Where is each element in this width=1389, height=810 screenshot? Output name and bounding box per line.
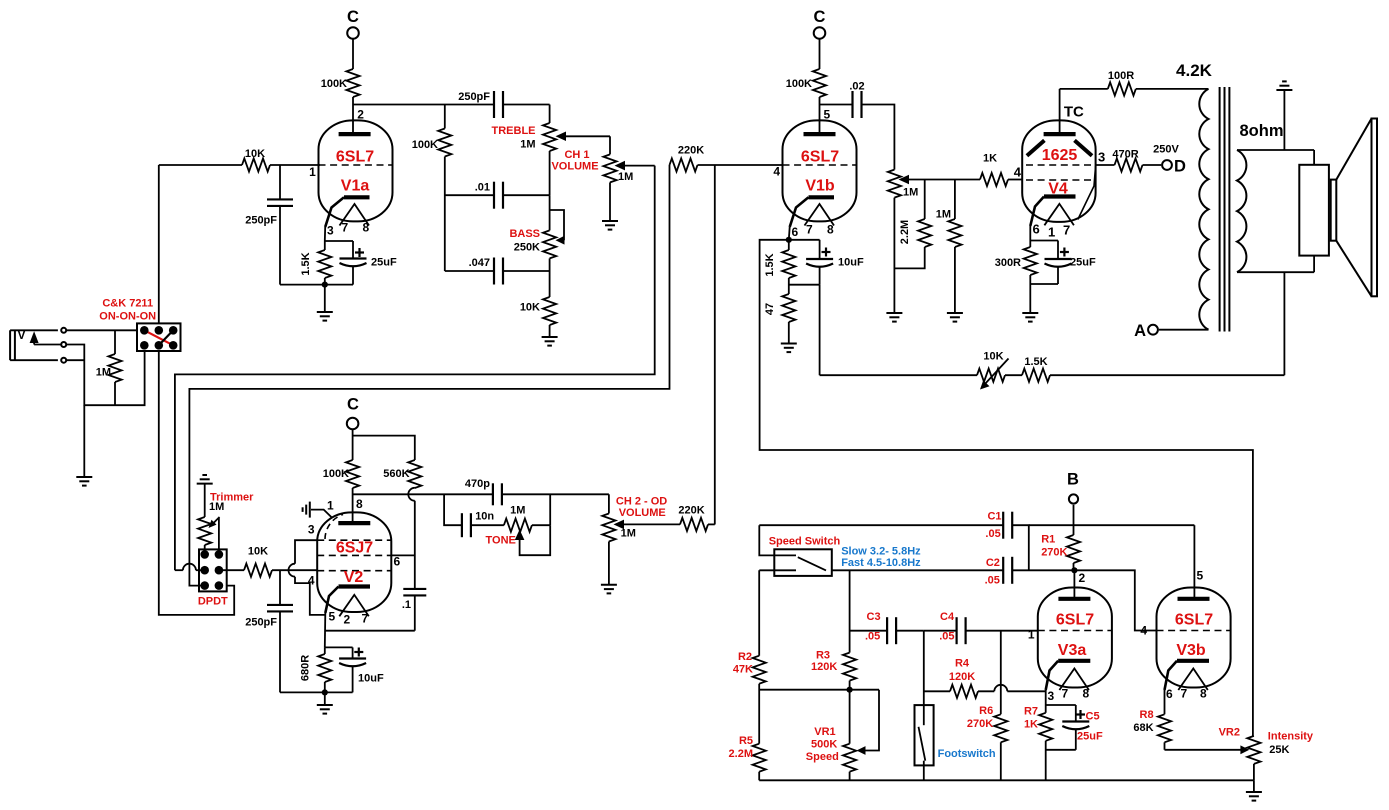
svg-text:10K: 10K: [520, 302, 540, 314]
wire secondary ground stem: [1283, 90, 1285, 150]
svg-text:C3: C3: [867, 611, 881, 623]
svg-text:C2: C2: [986, 557, 1000, 569]
svg-text:BASS: BASS: [509, 228, 540, 240]
resistor 1M grid leak: [954, 180, 956, 220]
svg-text:6SL7: 6SL7: [801, 149, 839, 166]
svg-text:47K: 47K: [733, 664, 753, 676]
svg-text:47: 47: [764, 303, 776, 315]
wire C1 run to V3b plate: [1029, 524, 1195, 526]
VR2 wiper arrow: [1240, 745, 1249, 754]
ground driver pot: [886, 312, 902, 314]
svg-text:1K: 1K: [1024, 719, 1038, 731]
switch speed body: [774, 549, 832, 576]
wire cathode to 680R: [325, 646, 353, 648]
wire R8 to VR2: [1165, 749, 1242, 751]
svg-text:C5: C5: [1086, 711, 1100, 723]
tube V4 heater: [1044, 204, 1074, 226]
wire .02 to driver pot: [862, 105, 895, 170]
wire V4 cathode: [1029, 226, 1031, 247]
svg-text:1: 1: [1028, 628, 1035, 642]
svg-text:100K: 100K: [323, 468, 349, 480]
svg-text:8ohm: 8ohm: [1240, 122, 1284, 140]
svg-text:250pF: 250pF: [245, 215, 277, 227]
tube V3a heater: [1059, 669, 1089, 691]
transformer core: [1219, 87, 1221, 332]
wire V4 plate to 100R: [1060, 88, 1108, 90]
resistor 100K V1a plate load: [346, 69, 359, 97]
svg-text:470R: 470R: [1112, 149, 1138, 161]
footswitch contact: [923, 705, 925, 725]
svg-text:6SL7: 6SL7: [1175, 612, 1213, 629]
wire V2 pin3 to cathode: [295, 540, 317, 564]
trimmer 1M: [198, 517, 211, 545]
svg-text:6: 6: [1033, 222, 1040, 237]
capacitor 250pF V1a input: [279, 165, 281, 199]
tube V4 screen link: [1078, 166, 1096, 220]
svg-text:250V: 250V: [1153, 144, 1179, 156]
svg-text:25uF: 25uF: [1070, 257, 1096, 269]
svg-text:4: 4: [1140, 624, 1147, 638]
switch footswitch body: [915, 705, 934, 765]
switch speed lever: [798, 557, 826, 570]
wire cathode to 10uF: [789, 239, 820, 241]
wire B down: [1073, 505, 1075, 535]
svg-text:270K: 270K: [967, 718, 993, 730]
resistor 100K tone: [444, 105, 446, 129]
svg-text:6SL7: 6SL7: [336, 149, 374, 166]
tube V3a grid dashes: [1038, 630, 1112, 632]
svg-text:220K: 220K: [678, 505, 704, 517]
wire node to V3b grid: [1074, 570, 1157, 630]
wire V1b cathode: [788, 227, 791, 240]
ground V1a cathode: [317, 311, 333, 313]
terminal D: [1162, 160, 1172, 170]
svg-text:5: 5: [329, 609, 336, 623]
node R1 C2: [1071, 567, 1077, 573]
tube V2 dash grid: [317, 570, 391, 572]
trimmer wiper arrow: [209, 520, 217, 528]
wire ch2 mix riser: [714, 165, 716, 525]
rheostat 10K arrow: [984, 359, 1009, 386]
tube V3a cathode: [1058, 659, 1090, 663]
svg-text:1M: 1M: [520, 139, 535, 151]
svg-text:DPDT: DPDT: [198, 596, 228, 608]
svg-text:.1: .1: [402, 599, 411, 611]
wire speed switch to R2 chain: [758, 570, 760, 655]
capacitor 10n tone: [444, 494, 462, 525]
svg-text:10uF: 10uF: [838, 257, 864, 269]
resistor 220K ch2 mix: [680, 518, 708, 531]
svg-text:C1: C1: [987, 511, 1001, 523]
tube V1b envelope: [783, 120, 857, 221]
svg-text:D: D: [1174, 158, 1186, 176]
input jack J1: [9, 330, 11, 360]
resistor R8 68K: [1164, 690, 1166, 714]
svg-text:6: 6: [394, 555, 401, 569]
svg-text:10K: 10K: [983, 351, 1003, 363]
svg-text:TONE: TONE: [486, 535, 516, 547]
resistor R1 270K: [1067, 535, 1080, 563]
svg-text:100K: 100K: [321, 78, 347, 90]
svg-text:.047: .047: [469, 257, 490, 269]
svg-text:1M: 1M: [621, 528, 636, 540]
speaker voice coil: [1331, 180, 1337, 241]
svg-text:Speed: Speed: [806, 751, 839, 763]
svg-text:680R: 680R: [300, 655, 312, 681]
svg-text:1M: 1M: [618, 171, 633, 183]
tube V1b heater: [805, 204, 835, 226]
ground V2 pin1: [309, 502, 311, 518]
svg-text:7: 7: [362, 612, 369, 626]
wire 220K to V1b grid: [698, 164, 783, 166]
resistor R3 120K: [843, 653, 856, 681]
speaker magnet: [1299, 165, 1329, 256]
svg-text:C: C: [814, 8, 826, 26]
svg-text:500K: 500K: [811, 739, 837, 751]
svg-text:2: 2: [344, 612, 351, 626]
tube V1a heater: [340, 204, 370, 226]
wire plate row to tone stack: [353, 104, 494, 106]
tube V4 grid dashes: [1026, 179, 1092, 181]
wire 470p junction down: [549, 494, 551, 525]
svg-text:4: 4: [308, 574, 315, 588]
node V1a cathode junction: [322, 282, 328, 288]
wire V1a cathode: [324, 227, 326, 250]
tube V2 dash suppressor: [317, 539, 391, 541]
svg-text:VOLUME: VOLUME: [619, 507, 666, 519]
tube V2 envelope: [317, 512, 391, 612]
capacitor 25uF V1a cathode: [352, 241, 354, 259]
wire V3a plate lead: [1073, 570, 1075, 599]
svg-text:250K: 250K: [514, 242, 540, 254]
tube V2 grid cap dash arc: [325, 515, 343, 540]
svg-text:CH 1: CH 1: [564, 149, 589, 161]
svg-text:8: 8: [1083, 687, 1090, 701]
ground V2 cathode: [317, 704, 333, 706]
capacitor .047 bass: [445, 270, 494, 272]
wire DPDT to 10K: [219, 569, 244, 571]
resistor 560K screen: [408, 460, 421, 488]
rheostat 10K NFB: [977, 369, 1005, 382]
svg-text:R6: R6: [979, 705, 993, 717]
switch C&K contacts: [140, 326, 149, 335]
svg-text:3: 3: [308, 523, 315, 537]
wire V2 plate row: [353, 493, 493, 495]
wire V1a grid: [159, 164, 242, 166]
capacitor 250pF treble: [493, 91, 495, 118]
speaker cone: [1336, 119, 1371, 180]
resistor 10K grid stopper: [242, 158, 270, 171]
svg-text:1M: 1M: [209, 501, 224, 513]
switch DPDT body: [199, 549, 227, 591]
resistor R6 270K: [994, 714, 1007, 742]
footswitch lever: [919, 727, 926, 761]
resistor R2 47K: [753, 656, 766, 684]
svg-text:4: 4: [773, 164, 780, 178]
capacitor C1 .05: [1002, 512, 1004, 539]
VR1 wiper arrow: [864, 690, 879, 751]
wire C1 to C2 junction: [1012, 525, 1029, 570]
svg-text:C4: C4: [940, 611, 955, 623]
ground trimmer top: [197, 483, 213, 485]
node V2 cathode: [322, 689, 328, 695]
tube V1a envelope: [319, 120, 393, 221]
resistor 220K ch1 mix: [670, 158, 698, 171]
svg-text:1.5K: 1.5K: [1024, 356, 1047, 368]
svg-text:7: 7: [342, 221, 349, 235]
wire V2 cathode down: [324, 613, 327, 647]
tube V2 heater: [339, 595, 369, 617]
svg-text:TC: TC: [1064, 104, 1084, 121]
resistor 47 V1b: [782, 294, 795, 322]
wire to ground 300R: [1029, 284, 1031, 313]
tube V1b grid dashes: [783, 164, 857, 166]
svg-text:Fast 4.5-10.8Hz: Fast 4.5-10.8Hz: [841, 557, 921, 569]
tube V4 beam plates: [1027, 140, 1045, 155]
potentiometer TREBLE 1M: [543, 123, 556, 151]
wire V4 screen to 470R: [1096, 164, 1115, 166]
svg-text:1: 1: [327, 499, 334, 513]
svg-text:R4: R4: [955, 658, 970, 670]
resistor 1.5K NFB: [1022, 369, 1050, 382]
ground tone stack: [542, 336, 558, 338]
ground secondary: [1276, 89, 1292, 91]
svg-text:1M: 1M: [510, 505, 525, 517]
potentiometer CH1 VOLUME 1M: [603, 154, 616, 182]
svg-text:120K: 120K: [949, 671, 975, 683]
wire V3a cathode down: [1045, 690, 1047, 713]
svg-text:C: C: [347, 8, 359, 26]
tone wiper arrow: [515, 530, 525, 541]
svg-text:.05: .05: [985, 575, 1000, 587]
svg-text:25uF: 25uF: [371, 257, 397, 269]
wire jack tip to switch: [66, 329, 137, 331]
svg-text:1K: 1K: [983, 153, 997, 165]
speaker cone face: [1372, 119, 1378, 297]
switch DPDT contacts: [200, 550, 209, 559]
tube V1b cathode: [809, 195, 835, 199]
terminal A: [1148, 325, 1158, 335]
svg-text:2.2M: 2.2M: [899, 220, 911, 244]
resistor 1M input: [114, 330, 116, 354]
tube V4 cathode: [1044, 194, 1076, 198]
capacitor .01 bass: [445, 194, 494, 196]
resistor 100R: [1108, 82, 1136, 95]
jack switch arrow: [30, 331, 39, 343]
ground main bottom: [1253, 780, 1255, 792]
tube V2 pin1 lead: [311, 510, 332, 518]
svg-text:Slow 3.2- 5.8Hz: Slow 3.2- 5.8Hz: [841, 546, 921, 558]
capacitor 10uF V1b: [819, 240, 821, 259]
svg-text:VR2: VR2: [1219, 726, 1240, 738]
svg-text:1: 1: [1048, 224, 1055, 239]
wire tremolo tap: [760, 240, 1253, 736]
wire mid junction: [549, 195, 551, 210]
wire secondary to speaker top: [1313, 150, 1315, 165]
resistor R7 1K: [1039, 713, 1052, 741]
resistor 100K V1b plate load: [813, 69, 826, 97]
svg-text:V3a: V3a: [1058, 642, 1087, 659]
wire treble wiper to volume: [609, 136, 611, 154]
resistor R4 120K: [924, 690, 950, 692]
svg-text:CH 2 - OD: CH 2 - OD: [616, 496, 667, 508]
wire pin6 to 560K: [391, 554, 415, 556]
wire CH1 hop to DPDT: [175, 569, 183, 571]
tube V1a grid dashes: [319, 164, 393, 166]
tube V1b plate bar: [804, 132, 836, 136]
wire 560K hop to screen: [414, 487, 416, 489]
svg-text:VR1: VR1: [814, 726, 835, 738]
wire C3C4 node down: [923, 631, 925, 705]
svg-text:VOLUME: VOLUME: [551, 161, 598, 173]
svg-text:Intensity: Intensity: [1268, 731, 1314, 743]
resistor 1.5K V1b: [788, 240, 790, 250]
svg-text:8: 8: [827, 223, 834, 237]
capacitor 25uF V4: [1057, 241, 1059, 260]
capacitor .02 coupling: [851, 91, 853, 118]
switch C&K red pole: [144, 330, 173, 345]
wire footswitch bottom: [923, 761, 925, 781]
tube V3b heater: [1178, 669, 1208, 691]
svg-text:8: 8: [363, 221, 370, 235]
wire secondary top: [1237, 149, 1314, 151]
resistor 1K V4 grid: [980, 173, 1008, 186]
svg-text:10K: 10K: [245, 148, 265, 160]
tube V3b grid dashes: [1157, 630, 1231, 632]
capacitor C5 25uF: [1075, 705, 1077, 722]
bass rheostat jog: [550, 210, 564, 240]
wire treble top: [549, 105, 551, 124]
svg-text:Footswitch: Footswitch: [938, 748, 996, 760]
svg-text:3: 3: [1098, 150, 1105, 165]
svg-text:R1: R1: [1041, 534, 1055, 546]
tube V2 plate bar: [338, 521, 370, 525]
svg-text:270K: 270K: [1041, 547, 1067, 559]
svg-text:5: 5: [824, 107, 831, 121]
svg-text:100K: 100K: [786, 78, 812, 90]
svg-text:8: 8: [356, 497, 363, 511]
wire V1b plate row: [820, 104, 853, 106]
svg-text:2: 2: [1079, 571, 1086, 585]
wire secondary bottom: [1237, 271, 1314, 273]
wire R4 hop to cathode: [978, 690, 994, 692]
node R3 VR1: [847, 687, 853, 693]
wire switch to V1a grid: [158, 165, 160, 323]
svg-text:V3b: V3b: [1176, 642, 1206, 659]
svg-text:R7: R7: [1024, 706, 1038, 718]
svg-text:B: B: [1067, 471, 1079, 489]
svg-text:1M: 1M: [936, 209, 951, 221]
svg-text:V: V: [18, 328, 26, 342]
svg-text:250pF: 250pF: [458, 91, 490, 103]
tube V3a plate bar: [1058, 597, 1090, 601]
wire NFB from secondary: [1283, 272, 1285, 375]
wire speed switch upper: [759, 525, 796, 555]
svg-text:R2: R2: [738, 651, 752, 663]
svg-text:R5: R5: [739, 735, 753, 747]
ground input: [76, 476, 92, 478]
svg-text:7: 7: [1181, 687, 1188, 701]
svg-text:68K: 68K: [1133, 722, 1153, 734]
tube V4 top cap lead: [1059, 89, 1061, 134]
capacitor 250pF V2 input: [279, 570, 281, 605]
wire NFB run: [1050, 374, 1284, 376]
svg-text:6SJ7: 6SJ7: [336, 540, 373, 557]
node V1b cathode: [786, 237, 792, 243]
resistor R5 2.2M: [753, 744, 766, 772]
svg-text:7: 7: [806, 223, 813, 237]
svg-text:120K: 120K: [811, 661, 837, 673]
svg-text:220K: 220K: [678, 145, 704, 157]
wire R2 R3 rail: [759, 689, 879, 691]
wire CH1 to switch: [175, 166, 655, 571]
ground CH1 volume: [602, 220, 618, 222]
svg-text:A: A: [1134, 322, 1146, 340]
svg-text:3: 3: [1048, 689, 1055, 703]
tube V3b plate bar: [1178, 597, 1210, 601]
resistor 2.2M bias: [924, 180, 926, 220]
resistor 1.5K V1a cathode: [318, 250, 331, 278]
CH1 volume wiper arrow: [615, 161, 626, 171]
potentiometer CH2 VOLUME 1M: [602, 514, 615, 542]
svg-text:.05: .05: [939, 631, 954, 643]
tube V3b plate lead: [1193, 525, 1195, 599]
jack terminal circles: [61, 328, 66, 333]
rheostat VR1 500K: [843, 744, 856, 772]
svg-text:ON-ON-ON: ON-ON-ON: [99, 311, 156, 323]
tube V4 envelope: [1022, 120, 1095, 221]
svg-text:10n: 10n: [475, 511, 494, 523]
capacitor .1 screen bypass: [403, 588, 426, 590]
svg-text:5: 5: [1197, 568, 1204, 582]
svg-text:8: 8: [1200, 687, 1207, 701]
wire jack sleeve: [66, 359, 84, 361]
ground CH2 volume: [601, 584, 617, 586]
svg-text:Speed Switch: Speed Switch: [769, 536, 841, 548]
tube V3b envelope: [1157, 588, 1231, 688]
switch C&K black pole: [159, 330, 173, 345]
rheostat VR2 25K: [1247, 736, 1260, 764]
ground V1b cathode: [781, 343, 797, 345]
wire to ground V1a: [324, 285, 326, 312]
tube V2 dash screen: [317, 554, 391, 556]
svg-text:1625: 1625: [1042, 147, 1078, 164]
svg-text:10uF: 10uF: [358, 672, 384, 684]
svg-text:2.2M: 2.2M: [729, 748, 753, 760]
tube V1a cathode: [344, 195, 370, 199]
wire jack ring: [66, 345, 144, 406]
tube V4 plate bar: [1044, 132, 1076, 136]
capacitor 10uF V2: [352, 647, 354, 658]
tube V4 screen dashes: [1026, 164, 1092, 166]
wire V3a grid column: [1000, 631, 1002, 715]
capacitor 470p: [492, 483, 494, 505]
wire 10K to V2 grid: [272, 569, 318, 571]
svg-text:7: 7: [1063, 222, 1070, 237]
svg-text:.01: .01: [475, 182, 490, 194]
svg-text:25uF: 25uF: [1077, 731, 1103, 743]
tube V3a envelope: [1038, 588, 1112, 688]
svg-text:.05: .05: [865, 631, 880, 643]
wire 220K feed down: [189, 165, 669, 586]
svg-text:1: 1: [309, 165, 316, 179]
svg-text:6: 6: [1166, 687, 1173, 701]
ground V4 cathode: [1022, 312, 1038, 314]
wire 10K to V1a pin1: [270, 164, 320, 166]
wire V2 cathode ground: [324, 692, 326, 705]
wire primary to terminal A: [1159, 329, 1209, 331]
transformer primary coil: [1199, 89, 1208, 330]
